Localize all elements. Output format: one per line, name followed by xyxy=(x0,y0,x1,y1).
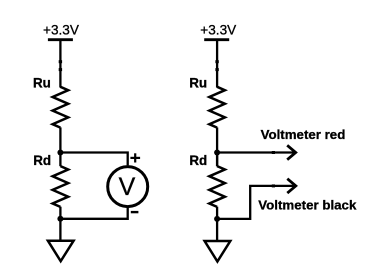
ground symbol (left) xyxy=(48,241,74,262)
svg-text:Ru: Ru xyxy=(189,75,207,90)
svg-text:Voltmeter red: Voltmeter red xyxy=(261,127,346,142)
wire: node B to ground (left) xyxy=(59,219,61,241)
wire joint mark (left, lower) xyxy=(59,68,62,71)
svg-text:Rd: Rd xyxy=(189,153,207,168)
wire joint mark on black lead xyxy=(272,184,275,187)
resistor Ru (right) xyxy=(209,87,225,128)
resistor Ru (left) xyxy=(53,87,69,128)
minus terminal label of V1 xyxy=(131,211,139,213)
wire: Ru to node C xyxy=(216,127,218,166)
wire: node C to voltmeter red lead (arrow shaft) xyxy=(217,151,293,153)
svg-text:Ru: Ru xyxy=(33,75,51,90)
svg-text:V: V xyxy=(119,173,136,201)
node D junction dot (right ground node) xyxy=(214,216,220,222)
voltmeter V1 (circle body) xyxy=(108,167,148,207)
svg-text:+3.3V: +3.3V xyxy=(43,23,79,38)
wire: left rail to Ru xyxy=(59,40,61,88)
resistor Rd (right) xyxy=(209,166,225,207)
wire joint mark (right, upper) xyxy=(215,60,218,63)
wire: node C to Rd (right) xyxy=(216,153,218,167)
svg-text:Rd: Rd xyxy=(33,153,51,168)
svg-text:+3.3V: +3.3V xyxy=(200,23,236,38)
svg-text:Voltmeter black: Voltmeter black xyxy=(258,197,357,212)
power rail +3.3V (right) xyxy=(204,38,229,41)
arrowhead of voltmeter red lead xyxy=(287,145,296,159)
resistor Rd (left) xyxy=(53,166,69,207)
plus terminal label of V1 xyxy=(130,153,140,162)
wire: Rd to node B xyxy=(59,207,61,219)
node C junction dot (right divider tap) xyxy=(214,150,220,156)
power rail +3.3V (left) xyxy=(48,38,73,41)
wire joint mark on red lead xyxy=(272,151,275,154)
ground symbol (right) xyxy=(205,241,231,262)
wire joint mark (right, lower) xyxy=(215,68,218,71)
wire: node D to ground (right) xyxy=(216,219,218,241)
wire: right rail to Ru xyxy=(216,40,218,88)
node B junction dot (left ground node) xyxy=(57,216,63,222)
node A junction dot (left divider tap) xyxy=(57,150,63,156)
wire: voltmeter - terminal to node B xyxy=(60,208,127,219)
arrowhead of voltmeter black lead xyxy=(287,179,296,193)
wire: node A to voltmeter + terminal xyxy=(60,153,127,166)
wire: node D to voltmeter black lead (up and over) xyxy=(217,186,294,219)
wire: Ru to node A xyxy=(59,127,61,166)
wire joint mark (left, upper) xyxy=(59,60,62,63)
wire: Rd to node D xyxy=(216,207,218,219)
